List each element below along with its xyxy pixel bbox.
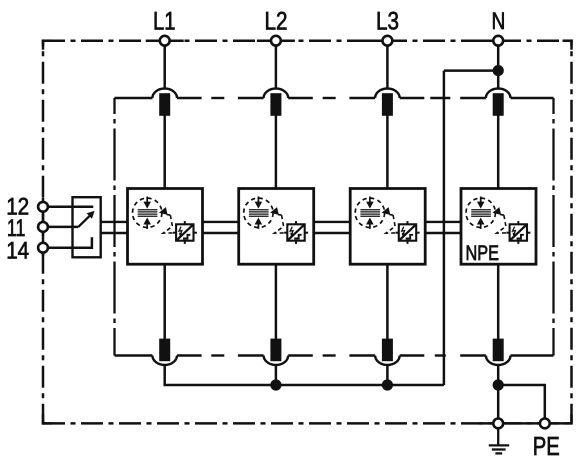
wire L2 disconnector to module <box>275 112 278 190</box>
wire monitoring link upper segment 2 <box>203 221 239 223</box>
wire L2 bottom disconnector drop <box>275 365 278 385</box>
varistor right stub in module L2 <box>305 232 308 234</box>
terminal L1 <box>160 36 170 46</box>
disconnector linkage arrow in module L3 <box>382 207 391 215</box>
changeover contact box <box>73 197 101 257</box>
inner boundary top line segment 5 <box>288 97 313 99</box>
thermal disconnector L1 top <box>152 89 177 99</box>
wire monitoring link lower segment 4 <box>425 232 461 234</box>
varistor lightning bolt in module N (N-PE spark gap) <box>513 227 516 235</box>
varistor top stub in module L1 <box>184 221 186 224</box>
varistor box in module N (N-PE spark gap) <box>510 224 527 240</box>
varistor step curve in module L3 <box>406 235 413 239</box>
wire bus L2-L3 <box>276 384 388 387</box>
SPD module L1 box <box>128 189 203 265</box>
node junction N-PE <box>493 379 504 390</box>
inner boundary bottom line segment 2 <box>177 354 202 356</box>
wire N bottom disconnector to ground terminal <box>497 365 500 424</box>
varistor diagonal in module N (N-PE spark gap) <box>510 225 526 240</box>
terminal 11 <box>38 222 48 232</box>
disconnector linkage arrow in module N (N-PE spark gap) <box>492 207 501 215</box>
varistor box in module L1 <box>176 224 193 240</box>
wire L3 disconnector to module <box>386 112 389 190</box>
varistor right stub in module L3 <box>416 232 419 234</box>
wire N terminal to top disconnector <box>497 41 500 90</box>
wire solid border segment at terminal L1 <box>146 39 184 42</box>
SPD module L3 box <box>350 189 425 265</box>
varistor bottom stub in module L3 <box>407 241 409 244</box>
thermal disconnector L1 bottom <box>152 356 177 366</box>
spark gap top arrow in module N (N-PE spark gap) <box>480 197 482 204</box>
wire monitoring link lower segment 3 <box>314 232 351 234</box>
wire monitoring link lower segment 1 <box>101 232 128 234</box>
spark gap bottom arrow in module L2 <box>257 223 259 229</box>
wire node N to riser (horizontal) <box>444 69 498 72</box>
varistor step curve in module L2 <box>294 235 301 239</box>
svg-text:L3: L3 <box>376 9 399 36</box>
enclosure border corner bottom-left <box>42 422 52 425</box>
inner boundary bottom line segment 5 <box>288 354 313 356</box>
enclosure border corner top-right <box>563 39 573 42</box>
varistor top stub in module L3 <box>407 221 409 224</box>
inner boundary bottom line segment 11 <box>511 354 554 356</box>
SPD module N (N-PE spark gap) box <box>461 189 536 265</box>
wire solid border segment at terminal N <box>479 39 517 42</box>
inner boundary top line segment 6 <box>323 97 336 99</box>
svg-text:NPE: NPE <box>466 242 500 265</box>
wire monitoring link upper segment 3 <box>314 221 351 223</box>
enclosure border corner top-left <box>42 39 52 42</box>
varistor bottom stub in module N (N-PE spark gap) <box>517 241 519 244</box>
inner boundary top line segment 11 <box>511 97 554 99</box>
enclosure border right (dash-dot) <box>570 41 573 424</box>
wire L1 bottom disconnector to bus corner <box>165 365 276 385</box>
wire L1 disconnector to module <box>163 112 166 190</box>
inner boundary bottom line segment 8 <box>400 354 425 356</box>
varistor top stub in module N (N-PE spark gap) <box>517 221 519 224</box>
inner boundary bottom line segment 6 <box>323 354 336 356</box>
varistor bottom stub in module L2 <box>295 241 297 244</box>
thermal disconnector N top <box>486 89 511 99</box>
terminal 14 <box>38 243 48 253</box>
varistor diagonal in module L2 <box>288 225 304 240</box>
inner protection-module boundary right (dash-dot) <box>552 98 554 356</box>
ground symbol bar 2 <box>492 448 506 450</box>
spark gap bottom arrow in module L1 <box>146 223 148 229</box>
wire L2 module to bottom disconnector <box>275 263 278 340</box>
spark gap top arrow in module L3 <box>369 197 371 204</box>
ground symbol bar 1 <box>489 444 509 446</box>
terminal ground <box>493 419 503 429</box>
terminal L3 <box>383 36 393 46</box>
varistor box in module L3 <box>399 224 416 240</box>
inner boundary bottom line segment 7 <box>349 354 375 356</box>
varistor left stub in module L1 <box>173 232 176 234</box>
thermal disconnector L3 top <box>375 89 400 99</box>
svg-text:14: 14 <box>6 238 29 265</box>
spark gap top arrow in module L1 <box>146 197 148 204</box>
spark gap (dashed circle) in module L2 <box>244 198 273 227</box>
varistor top stub in module L2 <box>295 221 297 224</box>
inner boundary bottom line segment 4 <box>238 354 264 356</box>
node junction N-riser top <box>493 65 504 76</box>
wire solid border segment at terminal L3 <box>368 39 406 42</box>
wire monitoring link upper segment 4 <box>425 221 461 223</box>
wire solid border segment at terminals 12 11 14 <box>42 198 45 256</box>
varistor left stub in module L2 <box>284 232 287 234</box>
disconnector linkage arrow in module L2 <box>270 207 279 215</box>
varistor lightning bolt in module L2 <box>290 227 293 235</box>
varistor bottom stub in module L1 <box>184 241 186 244</box>
varistor step curve in module N (N-PE spark gap) <box>517 235 524 239</box>
inner boundary top line segment 7 <box>349 97 375 99</box>
spark gap top arrow in module L2 <box>257 197 259 204</box>
wire L2 terminal to top disconnector <box>275 41 278 90</box>
varistor left stub in module L3 <box>396 232 399 234</box>
ground symbol bar 3 <box>495 452 502 454</box>
inner boundary top line segment 4 <box>238 97 264 99</box>
wire monitoring link upper segment 1 <box>101 221 128 223</box>
inner boundary top line segment 8 <box>400 97 425 99</box>
inner boundary top line segment 10 <box>460 97 486 99</box>
spark gap electrode stack in module L1 <box>138 209 158 211</box>
wire terminal 11 to contact arm <box>43 226 78 229</box>
thermal disconnector L2 bottom <box>264 356 289 366</box>
SPD module L2 box <box>239 189 314 265</box>
thermal disconnector N bottom <box>486 356 511 366</box>
varistor right stub in module N (N-PE spark gap) <box>527 232 530 234</box>
thermal disconnector L3 bottom <box>375 356 400 366</box>
spark gap (dashed circle) in module L1 <box>133 198 162 227</box>
terminal 12 <box>38 202 48 212</box>
varistor step curve in module L1 <box>183 235 190 239</box>
terminal PE <box>540 419 550 429</box>
spark gap electrode stack in module L3 <box>360 209 380 211</box>
spark gap (dashed circle) in module N (N-PE spark gap) <box>466 198 495 227</box>
inner boundary bottom line segment 3 <box>211 354 224 356</box>
disconnector linkage dashed link in module L2 <box>274 215 285 233</box>
varistor diagonal in module L3 <box>400 225 416 240</box>
inner boundary bottom line segment 1 <box>115 354 153 356</box>
svg-text:L2: L2 <box>265 9 288 36</box>
enclosure border corner bottom-right <box>570 414 573 424</box>
wire L3 terminal to top disconnector <box>386 41 389 90</box>
terminal L2 <box>271 36 281 46</box>
terminal N <box>493 36 503 46</box>
varistor lightning bolt in module L1 <box>179 227 182 235</box>
wire L1 module to bottom disconnector <box>163 263 166 340</box>
inner boundary top line segment 3 <box>211 97 224 99</box>
disconnector linkage dashed link in module L3 <box>386 215 397 233</box>
wire N-PE branch to PE terminal <box>498 385 545 423</box>
wire L3 bottom disconnector drop <box>386 365 389 385</box>
inner boundary top line segment 9 <box>430 97 450 99</box>
svg-text:N: N <box>492 8 506 35</box>
inner boundary top line segment 1 <box>115 97 153 99</box>
disconnector linkage dashed link in module L1 <box>163 215 174 233</box>
wire L1 terminal to top disconnector <box>163 41 166 90</box>
inner boundary bottom line segment 9 <box>435 354 446 356</box>
svg-text:PE: PE <box>533 433 560 461</box>
wire N disconnector to module <box>497 112 500 190</box>
ground symbol stem <box>497 429 499 446</box>
disconnector linkage arrow in module L1 <box>159 207 168 215</box>
wire bus L3-riser <box>387 384 444 387</box>
changeover contact arm <box>78 215 90 227</box>
enclosure border left (dash-dot) <box>42 41 45 424</box>
wire L3 module to bottom disconnector <box>386 263 389 340</box>
spark gap bottom arrow in module N (N-PE spark gap) <box>480 223 482 229</box>
enclosure border top (dash-dot) <box>43 39 572 42</box>
wire solid border segment at terminal L2 <box>257 39 295 42</box>
spark gap electrode stack in module L2 <box>249 209 269 211</box>
inner boundary top line segment 2 <box>177 97 202 99</box>
wire N module to bottom disconnector <box>497 263 500 340</box>
inner boundary bottom line segment 10 <box>460 354 486 356</box>
node junction L3-bus <box>382 379 393 390</box>
spark gap bottom arrow in module L3 <box>369 223 371 229</box>
thermal disconnector L2 top <box>264 89 289 99</box>
varistor diagonal in module L1 <box>177 225 193 240</box>
varistor box in module L2 <box>287 224 304 240</box>
disconnector linkage dashed link in module N (N-PE spark gap) <box>497 215 508 233</box>
node junction L2-bus <box>270 379 281 390</box>
varistor right stub in module L1 <box>194 232 197 234</box>
spark gap electrode stack in module N (N-PE spark gap) <box>471 209 491 211</box>
varistor lightning bolt in module L3 <box>402 227 405 235</box>
spark gap (dashed circle) in module L3 <box>355 198 384 227</box>
enclosure border bottom (dash-dot) <box>43 422 572 425</box>
wire monitoring link lower segment 2 <box>203 232 239 234</box>
wire riser N-bus (vertical) <box>443 71 446 385</box>
wire solid border segment at ground/PE terminals <box>479 422 572 425</box>
wire terminal 12 to fixed contact <box>43 206 93 209</box>
inner protection-module boundary left (dash-dot) <box>113 98 115 356</box>
varistor left stub in module N (N-PE spark gap) <box>506 232 509 234</box>
wire terminal 14 to fixed contact <box>43 237 92 247</box>
svg-text:L1: L1 <box>153 9 176 36</box>
